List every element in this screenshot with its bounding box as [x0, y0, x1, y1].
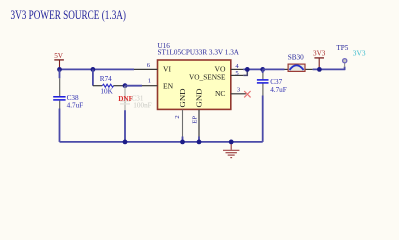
wire: VO_SENSE riser — [243, 69, 247, 75]
regulator U16 body — [158, 42, 240, 110]
power port 3V3 — [313, 50, 326, 70]
svg-text:3V3: 3V3 — [313, 50, 326, 58]
power port 5V — [54, 52, 64, 70]
svg-text:5V: 5V — [54, 52, 64, 60]
wire: EN pin connection — [125, 85, 142, 87]
resistor R74 — [93, 69, 125, 95]
svg-text:EP: EP — [192, 116, 199, 124]
node: 5V junction — [57, 67, 62, 72]
svg-text:1: 1 — [148, 78, 151, 85]
svg-text:VO_SENSE: VO_SENSE — [189, 72, 226, 81]
pin EP GND (bottom right) — [198, 110, 200, 137]
pin 6 VI — [134, 68, 158, 70]
ground symbol — [223, 142, 239, 158]
node: R74 tap junction — [91, 67, 96, 72]
svg-text:100nF: 100nF — [133, 101, 151, 109]
capacitor C31 (DNF, grayed out) — [118, 86, 151, 111]
node: C37 tap junction — [260, 67, 265, 72]
solder bridge SB30 — [285, 54, 313, 72]
svg-text:R74: R74 — [100, 75, 112, 83]
wire: VO to C37 tap — [243, 68, 262, 70]
pin 4 VO — [231, 68, 244, 70]
node: ground rail junction (C31) — [123, 140, 128, 145]
node: ground rail junction (EP) — [197, 140, 202, 145]
svg-text:GND: GND — [194, 88, 203, 108]
svg-text:4.7uF: 4.7uF — [67, 102, 84, 110]
svg-text:10K: 10K — [100, 87, 113, 95]
svg-text:3V3: 3V3 — [353, 48, 366, 57]
pin 3 NC — [231, 93, 246, 95]
node: VO junction — [245, 67, 250, 72]
test point TP5 — [336, 44, 348, 70]
node: 3V3 junction — [317, 67, 322, 72]
wire: SB30 to TP5 — [313, 68, 346, 70]
svg-text:4.7uF: 4.7uF — [270, 86, 287, 94]
wire: 5V rail to VI — [60, 68, 135, 70]
svg-text:ST1L05CPU33R 3.3V 1.3A: ST1L05CPU33R 3.3V 1.3A — [158, 49, 240, 57]
node: EN junction — [123, 83, 128, 88]
wire: C31 to ground rail — [124, 110, 126, 142]
wire: ground rail — [60, 141, 263, 143]
svg-text:TP5: TP5 — [336, 44, 348, 52]
wire: C37 tap to SB30 — [263, 68, 285, 70]
no-connect X on pin 3 — [244, 91, 250, 97]
node: ground rail junction (gnd) — [229, 140, 234, 145]
svg-text:NC: NC — [215, 89, 226, 98]
node: ground rail junction (pin 2) — [180, 140, 185, 145]
capacitor C37 — [257, 69, 287, 141]
pin 1 EN — [142, 85, 158, 87]
svg-text:VI: VI — [163, 65, 171, 74]
pin 2 GND (bottom left) — [182, 110, 184, 137]
pin 5 VO_SENSE — [231, 74, 244, 76]
capacitor C38 — [53, 69, 83, 141]
svg-text:2: 2 — [174, 115, 181, 118]
svg-text:SB30: SB30 — [288, 54, 304, 62]
svg-text:EN: EN — [163, 81, 174, 90]
svg-text:GND: GND — [178, 88, 187, 108]
svg-text:3V3 POWER SOURCE (1.3A): 3V3 POWER SOURCE (1.3A) — [11, 8, 127, 22]
